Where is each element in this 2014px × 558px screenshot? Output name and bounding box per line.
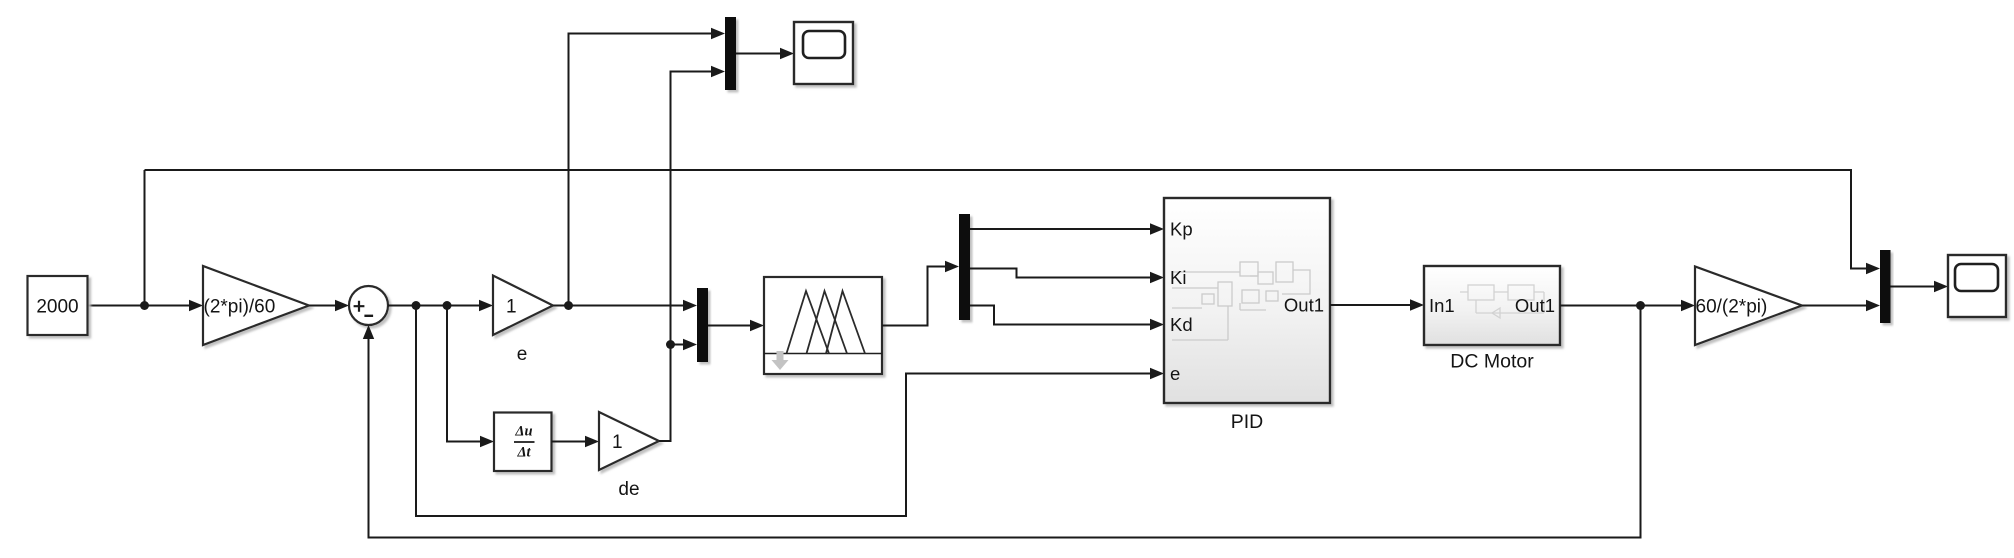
arrowhead into demux D1 — [945, 261, 959, 272]
svg-text:DC Motor: DC Motor — [1450, 351, 1534, 373]
arrowhead into sum — [335, 300, 349, 311]
wire: mux M2 output to scope 1 — [736, 53, 781, 55]
svg-text:60/(2*pi): 60/(2*pi) — [1696, 297, 1768, 318]
constant block 2000 — [28, 276, 88, 335]
scope 2 screen — [1955, 264, 1998, 291]
node: branch after constant 2000 — [140, 301, 149, 310]
DC Motor faint thumbnail sketch — [1460, 285, 1544, 318]
arrowhead into gain 60/(2*pi) — [1681, 300, 1695, 311]
node: branch to Delta u / Delta t — [443, 301, 452, 310]
demux D1 — [959, 214, 970, 320]
arrowhead into scope 1 — [780, 48, 794, 59]
wire: feedback loop to sum minus input — [369, 306, 1641, 538]
svg-text:Out1: Out1 — [1284, 295, 1324, 316]
arrowhead into Delta u/Delta t — [480, 436, 494, 447]
wire: demux out 2 to PID Ki — [970, 269, 1151, 278]
arrowhead into mux M2 input 2 — [711, 66, 725, 77]
svg-text:In1: In1 — [1429, 295, 1455, 316]
wire: e signal up to scope mux M2 input 1 — [569, 34, 713, 306]
wire: sum output to gain e — [388, 305, 480, 307]
sum block S1 — [349, 286, 388, 325]
arrowhead into scope 2 — [1934, 281, 1948, 292]
wire: Delta u/Delta t to gain de — [552, 441, 587, 443]
node: branch after gain e up to top mux — [564, 301, 573, 310]
gain e (value 1) — [493, 276, 553, 336]
wire: gain de output up to mux M1 input 2 and top mux M2 input 2 — [659, 72, 712, 442]
scope 1 screen — [803, 31, 845, 58]
arrowhead into mux M1 input 2 — [683, 339, 697, 350]
wire: mux M1 output to fuzzy block — [708, 325, 751, 327]
wire: long horizontal reference line to right mux — [145, 170, 1869, 269]
mux M3 (right, to scope 2) — [1880, 250, 1891, 323]
wire: demux out 3 to PID Kd — [970, 306, 1151, 325]
svg-text:e: e — [1170, 363, 1180, 384]
node: de branch into mux M1 input 2 — [666, 340, 675, 349]
fuzzy membership baseline — [764, 353, 882, 355]
arrowhead into mux M1 input 1 — [683, 300, 697, 311]
node: branch to feedback at DC Motor output — [1636, 301, 1645, 310]
wire: DC Motor output to gain 60/(2*pi) — [1560, 305, 1682, 307]
svg-text:1: 1 — [506, 297, 517, 318]
arrowhead into gain (2*pi)/60 — [189, 300, 203, 311]
svg-text:(2*pi)/60: (2*pi)/60 — [204, 297, 276, 318]
wire: demux out 1 to PID Kp — [970, 228, 1151, 230]
arrowhead into right mux input 2 — [1866, 300, 1880, 311]
subsystem block DC Motor — [1424, 266, 1560, 345]
fuzzy membership triangle 3 — [826, 291, 865, 354]
arrowhead into fuzzy block — [750, 320, 764, 331]
svg-text:2000: 2000 — [36, 297, 78, 318]
arrowhead into mux M2 input 1 — [711, 28, 725, 39]
svg-text:Kp: Kp — [1170, 219, 1193, 240]
wire: de branch to mux M1 input 2 — [671, 344, 685, 346]
mux M2 (top, to scope 1) — [725, 17, 736, 90]
PID faint thumbnail sketch — [1172, 262, 1310, 340]
svg-text:de: de — [618, 479, 639, 500]
wire: branch down to Delta u/Delta t block — [447, 306, 481, 442]
fuzzy logic controller block — [764, 277, 882, 374]
svg-text:Ki: Ki — [1170, 267, 1186, 288]
wire: gain e output to mux M1 input 1 — [553, 305, 684, 307]
arrowhead into PID Kp — [1150, 223, 1164, 234]
mux M1 (to fuzzy controller) — [697, 288, 708, 362]
svg-text:PID: PID — [1231, 411, 1264, 433]
wire: e long wire down and right to PID e input — [416, 306, 1151, 517]
arrowhead into PID Ki — [1150, 272, 1164, 283]
wire: gain G2 to right mux input 2 — [1802, 305, 1868, 307]
arrowhead into gain de — [585, 436, 599, 447]
fuzzy membership triangle 2 — [807, 291, 848, 354]
svg-text:e: e — [517, 344, 528, 365]
arrowhead into sum bottom (minus) — [363, 325, 374, 339]
arrowhead into gain e — [479, 300, 493, 311]
subsystem block PID — [1164, 198, 1330, 403]
scope 1 (top) — [794, 22, 853, 84]
gain de (value 1) — [599, 412, 659, 470]
arrowhead into DC Motor In1 — [1410, 299, 1424, 310]
svg-text:Out1: Out1 — [1515, 295, 1555, 316]
wire: fuzzy output up to demux D1 — [882, 267, 946, 326]
gain G1 (2*pi)/60 — [203, 266, 309, 345]
sum plus sign — [354, 301, 365, 312]
block Delta u / Delta t — [494, 413, 552, 472]
svg-text:Kd: Kd — [1170, 314, 1193, 335]
wire: gain G1 to sum — [309, 305, 336, 307]
sum minus sign — [364, 315, 373, 317]
fuzzy gray down-arrow glyph — [772, 351, 789, 370]
wire: constant 2000 output to gain (2*pi)/60 — [88, 305, 193, 307]
arrowhead into PID e input — [1150, 368, 1164, 379]
wire: PID Out1 to DC Motor — [1330, 304, 1411, 306]
arrowhead into right mux input 1 — [1866, 263, 1880, 274]
svg-text:1: 1 — [612, 432, 623, 453]
svg-text:Δt: Δt — [516, 445, 531, 461]
node: branch to error feedthrough (e long wire) — [412, 301, 421, 310]
gain G2 60/(2*pi) — [1695, 267, 1802, 346]
wire: mux M3 output to scope 2 — [1891, 286, 1936, 288]
wire: branch up from node to long top feedforward line — [144, 170, 146, 306]
svg-text:Δu: Δu — [514, 424, 532, 440]
scope 2 (right) — [1948, 255, 2006, 317]
fuzzy membership triangle 1 — [787, 291, 830, 354]
arrowhead into PID Kd — [1150, 319, 1164, 330]
